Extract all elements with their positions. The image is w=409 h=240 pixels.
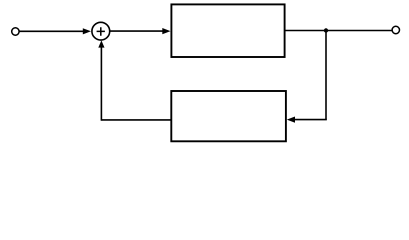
- wire feedback left segment: [294, 119, 327, 121]
- arrowhead into feedback block: [287, 117, 295, 123]
- arrowhead into summer bottom: [98, 40, 104, 47]
- output terminal: [392, 26, 399, 33]
- input terminal: [12, 28, 19, 35]
- wire feedback down segment: [325, 31, 327, 120]
- plus sign: [97, 27, 105, 36]
- arrowhead into forward block: [162, 28, 170, 34]
- wire riser up to summer: [100, 46, 102, 121]
- wire input to summer: [19, 30, 84, 32]
- forward block: [171, 4, 284, 57]
- arrowhead into summer left: [83, 28, 91, 34]
- summing junction: [92, 22, 110, 40]
- wire summer to forward block: [110, 30, 164, 32]
- feedback block: [171, 91, 286, 141]
- wire feedback block to left riser: [101, 119, 171, 121]
- node (takeoff point): [324, 28, 328, 32]
- wire forward block to output: [285, 30, 392, 32]
